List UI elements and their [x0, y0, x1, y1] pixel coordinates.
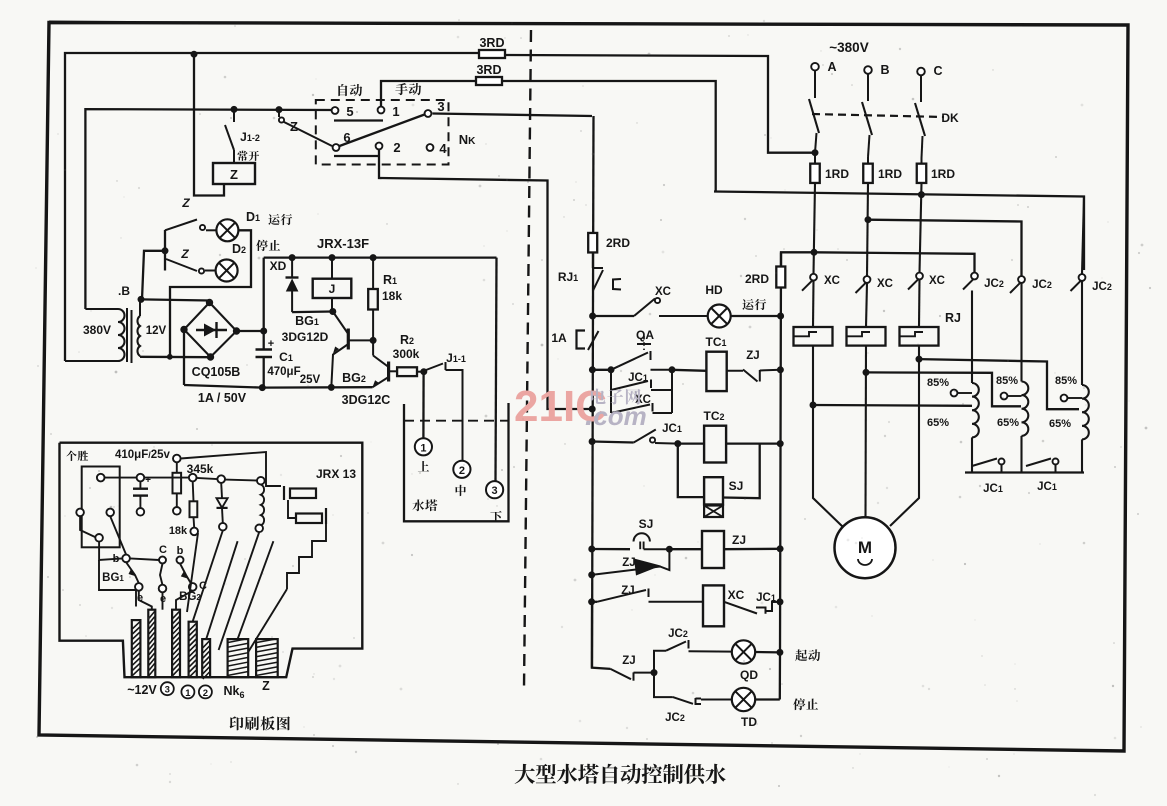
wire TD to right rail: [755, 698, 780, 700]
wire rail to HD lamp: [593, 315, 634, 317]
svg-text:3: 3: [492, 485, 498, 497]
contact ZJ (lamps changeover): [610, 669, 631, 679]
Nk blade 6-3: [340, 115, 425, 147]
lamp D1 running indicator: [216, 219, 238, 241]
wire Z coil bottom to wire L1: [194, 54, 224, 195]
junction phase A with wire L1: [812, 150, 818, 156]
resistor R1 18k: [372, 258, 374, 289]
relay coil Z: [213, 163, 255, 184]
svg-text:Z: Z: [262, 679, 270, 693]
svg-text:4: 4: [439, 141, 447, 156]
svg-text:470μF: 470μF: [267, 366, 300, 378]
label 下: [490, 511, 501, 522]
label 水塔: [412, 499, 424, 511]
svg-text:1A / 50V: 1A / 50V: [198, 391, 247, 405]
svg-text:b: b: [177, 545, 184, 557]
fuse 2RD (left rail): [588, 233, 597, 253]
caption 大型水塔自动控制供水: [515, 764, 535, 784]
contact JC1 (normally closed) after XC coil: [724, 602, 757, 614]
svg-text:DK: DK: [941, 111, 959, 125]
junction on wire L3 at Z switch: [276, 107, 282, 113]
caption 印刷板图: [230, 716, 244, 730]
tap wire phase C to winding3 65%: [919, 359, 1079, 409]
wire SJ to TC2 right side: [723, 444, 760, 499]
svg-text:1RD: 1RD: [878, 167, 902, 181]
svg-text:D1: D1: [246, 210, 260, 224]
label 常开: [237, 151, 247, 161]
svg-text:3: 3: [437, 99, 444, 114]
diode XD: [291, 258, 293, 277]
label 中: [456, 485, 466, 496]
svg-text:2: 2: [459, 465, 465, 477]
PCB connector finger 6: [228, 639, 249, 677]
contactor main contact XC phase C: [916, 273, 923, 280]
contact JC1 self-holding (parallel branch): [610, 370, 612, 390]
svg-text:J1-1: J1-1: [446, 351, 466, 365]
tap wire phase A to winding1 65%: [813, 404, 972, 407]
water tank: [404, 403, 509, 521]
svg-text:JC2: JC2: [665, 712, 685, 724]
svg-text:Z: Z: [180, 247, 189, 261]
tap terminal 85% winding 2: [1001, 393, 1008, 400]
wire node down to SJ coil: [678, 444, 704, 498]
junction rail-TC2 wire: [589, 439, 595, 445]
svg-text:RJ: RJ: [945, 311, 961, 325]
svg-text:65%: 65%: [997, 417, 1019, 429]
PCB connector label 2: [199, 685, 212, 698]
phase terminal A: [811, 63, 819, 71]
svg-text:XC: XC: [929, 275, 945, 287]
junction rail-ZJparallel: [589, 572, 595, 578]
svg-text:JC2: JC2: [668, 628, 688, 640]
contact ZJ (normally open, for XC): [597, 590, 646, 602]
svg-text:JC1: JC1: [628, 372, 648, 384]
junction R1 on rail: [370, 255, 376, 261]
motor feed phase B: [864, 346, 867, 517]
svg-text:JC2: JC2: [984, 278, 1004, 290]
motor feed phase A: [813, 346, 843, 527]
wire node to electrode 1: [422, 372, 425, 439]
wire lamp branch from node B: [142, 251, 165, 300]
svg-text:380V: 380V: [83, 323, 111, 337]
svg-text:TD: TD: [741, 715, 757, 729]
fuse 3RD (lower): [476, 77, 502, 85]
svg-text:3RD: 3RD: [476, 63, 501, 77]
svg-text:C: C: [933, 64, 942, 78]
junction lamp node: [651, 670, 657, 676]
capacitor C1 470uF 25V: [256, 348, 273, 351]
transformer secondary 12V: [137, 316, 140, 356]
resistor R2 300k: [397, 367, 417, 376]
fuse 3RD (upper): [479, 50, 505, 58]
transformer B primary 380V: [85, 308, 118, 310]
junction XD on rail: [289, 255, 295, 261]
node B: [138, 296, 144, 302]
phase A column: [814, 183, 816, 274]
wire rail bottom to ZJ lamp contact: [592, 602, 611, 669]
junction J coil on rail: [329, 255, 335, 261]
switch DK (three pole): [814, 71, 816, 99]
PCB trace top right to relay: [181, 452, 281, 486]
svg-text:Z: Z: [290, 119, 298, 134]
contactor main contact XC phase B: [864, 276, 871, 283]
junction on wire L3 at J1-2: [231, 106, 237, 112]
contactor main contact JC2 phase A: [971, 273, 978, 280]
PCB traces to connector: [99, 542, 122, 560]
svg-text:1RD: 1RD: [825, 167, 849, 181]
contact ZJ (normally closed) after TC1: [727, 370, 743, 372]
wire ZJ coil to right rail: [724, 548, 780, 551]
PCB connector finger 4: [189, 622, 197, 678]
junction ZJ coil node: [666, 546, 672, 552]
svg-text:~12V: ~12V: [127, 683, 157, 697]
control circuit right rail: [780, 253, 781, 700]
electrode terminal 3: [486, 481, 503, 498]
contact XC (second parallel branch): [610, 390, 612, 413]
junction 65 percent tap phase C: [916, 356, 922, 362]
PCB connector finger 1: [132, 620, 141, 677]
svg-text:A: A: [827, 60, 836, 74]
Nk contact 6: [333, 144, 340, 151]
contact JC1 star (left): [971, 437, 973, 472]
PCB pads left: [97, 474, 105, 482]
svg-text:XC: XC: [824, 275, 840, 287]
svg-text:JC1: JC1: [662, 423, 682, 435]
tap terminal 85% winding 1: [951, 390, 958, 397]
junction rail-ZJ wire: [589, 546, 595, 552]
svg-text:SJ: SJ: [729, 479, 744, 493]
tap wire phase B to JC2b: [868, 220, 1022, 277]
PCB diagonal trace fan: [187, 533, 198, 612]
svg-text:1A: 1A: [551, 331, 567, 345]
motor feed phase C: [890, 346, 919, 526]
watermark 电子网: [591, 389, 606, 404]
svg-text:J: J: [329, 282, 336, 296]
svg-text:XC: XC: [877, 278, 893, 290]
switch Z (lower, for lamp D2): [166, 259, 197, 271]
svg-text:2: 2: [203, 688, 208, 699]
wire node B to bridge AC input: [141, 299, 210, 300]
contactor coil TC2: [704, 426, 726, 463]
label 运行 for D1: [268, 214, 279, 225]
bridge rectifier CQ105B: [184, 303, 237, 358]
junction C1 bottom: [259, 385, 265, 391]
motor M: [835, 517, 896, 578]
svg-text:R2: R2: [400, 333, 414, 347]
starting autotransformer winding 2: [1020, 283, 1022, 382]
winding 3 bottom to star bar: [1081, 439, 1083, 472]
svg-text:3DG12D: 3DG12D: [282, 330, 329, 344]
wire HD to right rail: [731, 315, 781, 317]
svg-text:TC1: TC1: [705, 335, 726, 349]
wire rail to JC1 contact: [592, 442, 634, 443]
junction rail-XC wire: [589, 599, 595, 605]
svg-text:1: 1: [420, 442, 426, 454]
fuse switch 1A: [577, 331, 586, 349]
Nk contact 4: [427, 144, 434, 151]
svg-text:1: 1: [392, 104, 399, 119]
switch contact J1-2 (normally open): [233, 109, 235, 122]
lamp HD running: [708, 305, 731, 328]
svg-text:85%: 85%: [927, 377, 949, 389]
electrode terminal 1: [415, 438, 432, 455]
label 上: [418, 461, 429, 471]
svg-text:J1-2: J1-2: [240, 130, 260, 144]
PCB relay contact upper: [283, 486, 285, 500]
label 停止 for D2: [256, 240, 268, 251]
svg-text:2: 2: [393, 140, 400, 155]
PCB connector finger 7: [256, 639, 278, 677]
PCB diode: [217, 475, 225, 483]
switch contact J1-1: [426, 364, 443, 371]
star point bar: [965, 471, 1084, 473]
junction 65 percent tap phase B: [863, 369, 869, 375]
svg-text:SJ: SJ: [639, 517, 654, 531]
lamp QD starting: [732, 640, 755, 663]
time contact SJ (delayed closing): [634, 533, 650, 541]
svg-text:C: C: [159, 544, 167, 556]
svg-text:65%: 65%: [927, 417, 949, 429]
svg-text:BG1: BG1: [295, 314, 319, 328]
fuse 2RD (right rail): [776, 267, 785, 288]
svg-text:TC2: TC2: [703, 409, 724, 423]
PCB transistor BG2: [160, 564, 163, 586]
svg-text:1: 1: [185, 688, 191, 699]
+12V supply rail: [264, 256, 497, 258]
wire bridge AC2 to ground rail: [183, 330, 185, 386]
PCB connector label 3: [161, 682, 174, 695]
electrode terminal 2: [453, 461, 470, 478]
wire rail to SJ delayed contact: [592, 548, 630, 551]
svg-text:JC2: JC2: [1092, 281, 1112, 293]
printed circuit board outline: [60, 443, 363, 678]
wire QD to right rail: [755, 651, 780, 654]
svg-text:ZJ: ZJ: [622, 655, 635, 667]
svg-text:85%: 85%: [996, 375, 1018, 387]
dashed section divider: [524, 30, 531, 688]
fuse 1RD phase A: [814, 153, 816, 164]
wire rail to ZJ contact: [592, 601, 597, 603]
wire to contactor coil TC1: [672, 370, 706, 371]
svg-text:18k: 18k: [382, 289, 402, 303]
thermal relay contact RJ1 (normally closed): [592, 252, 594, 268]
junction BG1 emitter on rail: [328, 384, 334, 390]
Nk contact 1: [378, 107, 385, 114]
svg-text:XD: XD: [270, 259, 287, 273]
junction phase C on main bus: [918, 192, 924, 198]
starting autotransformer winding 1: [971, 291, 973, 384]
PCB trace top row: [105, 477, 137, 479]
svg-text:.B: .B: [118, 284, 130, 298]
svg-text:25V: 25V: [300, 374, 321, 386]
phase C column: [920, 183, 922, 273]
contact JC1 (for TC2): [634, 430, 656, 443]
Nk position bar 6-2: [334, 155, 379, 157]
wire rail to QA node: [592, 369, 611, 371]
contactor main contact JC2 phase C: [1079, 274, 1086, 281]
PCB label 个胜: [66, 451, 76, 461]
ground rail: [184, 385, 373, 388]
contact JC2 (normally closed, TD lamp): [654, 673, 673, 698]
label 停止: [793, 698, 805, 710]
wire L1 top bus from transformer primary to phase A: [65, 53, 479, 361]
wire Nk contact 3 to control rail: [433, 114, 593, 117]
svg-text:JC1: JC1: [983, 483, 1003, 495]
svg-text:ZJ: ZJ: [621, 585, 634, 597]
contact XC auxiliary (normally open): [634, 299, 655, 317]
label 起动: [795, 649, 807, 661]
svg-text:12V: 12V: [146, 325, 167, 337]
lamp rail left: [164, 230, 166, 271]
PCB connector finger 3: [172, 610, 180, 678]
PCB connector finger 2: [148, 610, 155, 678]
wire node to TC2: [678, 442, 704, 444]
svg-text:1RD: 1RD: [931, 167, 955, 181]
main bus wire: [714, 192, 1084, 271]
transistor BG1 3DG12D: [347, 329, 350, 350]
starting autotransformer winding 3: [1081, 281, 1083, 385]
svg-text:QD: QD: [740, 668, 758, 682]
svg-text:ZJ: ZJ: [732, 533, 746, 547]
lamp rail right and return wire: [170, 230, 251, 354]
svg-text:JC2: JC2: [1032, 279, 1052, 291]
contact JC2 (normally open, QD lamp): [654, 651, 666, 673]
svg-text:BG1: BG1: [102, 572, 124, 584]
svg-text:+: +: [268, 338, 274, 350]
svg-text:XC: XC: [728, 588, 745, 602]
contactor coil XC: [703, 585, 724, 626]
wire secondary bottom to bridge: [140, 356, 211, 359]
svg-text:410μF/25v: 410μF/25v: [115, 449, 171, 461]
Nk contact 5: [332, 107, 339, 114]
svg-text:85%: 85%: [1055, 375, 1077, 387]
Nk label 手动: [395, 83, 407, 95]
PCB transistor BG1: [122, 555, 130, 563]
svg-text:Z: Z: [230, 167, 238, 182]
svg-text:3RD: 3RD: [479, 36, 504, 50]
lamp TD stop: [732, 688, 755, 711]
svg-text:2RD: 2RD: [745, 272, 769, 286]
thermal element RJ phase A: [794, 327, 833, 346]
PCB connector label 1: [181, 685, 194, 698]
svg-text:~380V: ~380V: [829, 40, 868, 55]
svg-text:BG2: BG2: [342, 371, 366, 385]
Nk contact 3: [425, 110, 432, 117]
contactor coil TC1: [706, 352, 726, 391]
svg-text:3DG12C: 3DG12C: [342, 393, 391, 407]
wire L3 control feed: [85, 109, 331, 309]
svg-text:2RD: 2RD: [606, 236, 630, 250]
wire XC contacts to RJ elements: [812, 281, 815, 327]
svg-text:18k: 18k: [169, 525, 188, 537]
junction rail-QA wire: [589, 367, 595, 373]
svg-text:JRX-13F: JRX-13F: [317, 236, 369, 251]
Nk contact 2: [376, 143, 383, 150]
svg-text:300k: 300k: [393, 347, 420, 361]
svg-text:XC: XC: [655, 286, 671, 298]
thermal element RJ phase C: [900, 327, 939, 346]
svg-text:ZJ: ZJ: [746, 350, 759, 362]
PCB relay coil: [257, 477, 265, 485]
selector switch Nk (dashed enclosure): [316, 100, 449, 165]
svg-text:R1: R1: [383, 273, 397, 287]
wire L2 from Nk contact 1 to main bus: [381, 81, 476, 106]
Nk label 自动: [338, 84, 347, 96]
transistor BG2 3DG12C: [387, 362, 390, 382]
switch Z contact to Nk contact 6: [278, 110, 280, 117]
tap wire phase B to winding2 65%: [866, 372, 1021, 406]
relay coil J JRX-13F: [313, 279, 352, 298]
tap wire phase A to 2RD and JC2a: [781, 252, 975, 272]
svg-text:CQ105B: CQ105B: [192, 365, 241, 379]
wire XD to J coil bottom: [292, 310, 333, 313]
svg-text:Z: Z: [181, 196, 190, 210]
contact ZJ parallel (self-hold): [592, 549, 670, 575]
phase terminal C: [917, 68, 925, 76]
svg-text:B: B: [880, 63, 889, 77]
control circuit left rail: [592, 116, 594, 668]
switch Z (upper, for lamp D1): [165, 220, 197, 231]
contactor main contact JC2 phase B: [1018, 276, 1025, 283]
fuse 1RD phase C: [921, 158, 923, 164]
junction 65 percent tap phase A: [810, 402, 816, 408]
wire node to ZJ coil: [669, 548, 702, 550]
phase terminal B: [864, 66, 872, 74]
tap terminal 85% winding 3: [1061, 395, 1068, 402]
svg-text:RJ1: RJ1: [558, 270, 578, 284]
junction on wire L1: [191, 51, 197, 57]
label 运行: [742, 299, 753, 310]
contact JC1 star (right): [1020, 436, 1022, 473]
svg-text:3: 3: [165, 685, 170, 696]
phase B column: [867, 183, 868, 276]
svg-text:QA: QA: [636, 328, 654, 342]
contactor main contact XC phase A: [810, 274, 817, 281]
svg-text:ZJ: ZJ: [622, 557, 635, 569]
svg-text:JC1: JC1: [1037, 481, 1057, 493]
PCB trace relay to edge: [287, 524, 326, 589]
svg-text:5: 5: [346, 104, 353, 119]
pushbutton QA (start): [611, 353, 648, 370]
svg-text:M: M: [858, 538, 872, 557]
PCB relay footprint rectangle: [82, 467, 120, 548]
svg-text:65%: 65%: [1049, 418, 1071, 430]
intermediate relay coil ZJ: [702, 531, 724, 568]
junction R2 output node: [421, 369, 427, 375]
svg-text:D2: D2: [232, 242, 246, 256]
lamp D2 stop indicator: [216, 260, 238, 282]
svg-text:.com: .com: [585, 399, 647, 432]
PCB connector finger 5: [202, 639, 210, 677]
wire +rail to electrode 3: [496, 258, 497, 482]
PCB relay contact lower: [296, 514, 322, 524]
svg-text:JC1: JC1: [756, 592, 776, 604]
thermal element RJ phase B: [847, 327, 886, 346]
junction TC2-SJ node: [675, 441, 681, 447]
transformer core: [126, 308, 128, 362]
svg-text:HD: HD: [705, 283, 723, 297]
junction rail-HD wire: [590, 313, 596, 319]
time relay coil SJ: [704, 477, 723, 504]
svg-text:C1: C1: [279, 350, 293, 364]
Nk position bar 5-1: [334, 119, 383, 121]
fuse 1RD phase B: [867, 157, 869, 164]
wire bridge DC+ to C1 and +rail: [237, 330, 264, 332]
svg-text:JRX 13: JRX 13: [316, 467, 356, 481]
junction right rail HD: [778, 313, 784, 319]
wire Nk contact 2 to control rail bottom path: [379, 150, 592, 410]
wire TC2 to right rail: [726, 442, 780, 444]
